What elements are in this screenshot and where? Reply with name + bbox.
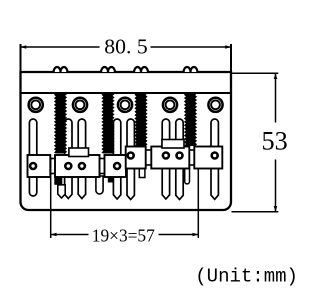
saddle block A (string 1 left) bbox=[28, 155, 51, 177]
saddle connector (raised, between blocks D-E) bbox=[144, 150, 154, 165]
dimension 53: bottom arrowhead bbox=[274, 206, 278, 212]
saddle connector (lower, between blocks B-C) bbox=[98, 159, 107, 174]
height adjustment screw 2 (shaft with tip) bbox=[65, 119, 72, 199]
height adjustment screw 3 (shaft with tip) bbox=[78, 119, 85, 199]
svg-text:80. 5: 80. 5 bbox=[104, 35, 147, 59]
string anchor humps (string 4) bbox=[184, 67, 198, 72]
saddle connector (raised, between blocks E-F) bbox=[187, 150, 196, 165]
mounting screw hole 5 bbox=[208, 98, 222, 112]
dimension 19x3=57: left arrowhead bbox=[51, 233, 57, 237]
dimension 80.5: dimension line right segment bbox=[151, 46, 232, 48]
dimension 80.5: right extension line bbox=[230, 44, 232, 72]
svg-text:53: 53 bbox=[262, 126, 288, 156]
string anchor humps (string 1) bbox=[54, 67, 68, 72]
string anchor humps (string 2) bbox=[101, 67, 115, 72]
height screw head 3 bbox=[78, 162, 87, 171]
dimension 80.5: left arrowhead bbox=[21, 45, 27, 49]
intonation screw with spring (string 2) bbox=[101, 93, 114, 154]
dimension 53: top arrowhead bbox=[274, 73, 278, 79]
dimension 19x3=57: dimension line right segment bbox=[159, 234, 199, 236]
plate bend line (back band bottom edge) bbox=[21, 92, 232, 94]
height screw head 8 bbox=[210, 151, 219, 160]
height adjustment screw 1 (shaft with tip) bbox=[29, 119, 36, 196]
dimension 19x3=57: right arrowhead bbox=[193, 233, 199, 237]
intonation screw tip leg (string 1) bbox=[58, 185, 65, 198]
saddle block B (strings 1-2 middle) bbox=[55, 155, 100, 177]
svg-text:19×3=57: 19×3=57 bbox=[92, 226, 155, 246]
svg-text:(Unit:mm): (Unit:mm) bbox=[195, 266, 298, 288]
height adjustment screw 8 (shaft with tip) bbox=[211, 119, 218, 199]
saddle block C (string 2 right) bbox=[105, 155, 127, 177]
mounting screw hole 3 bbox=[118, 98, 132, 112]
dimension 80.5: left extension line bbox=[20, 44, 22, 72]
height screw head 7 bbox=[175, 151, 184, 160]
saddle block E (strings 3-4 middle) bbox=[151, 147, 189, 169]
intonation screw with spring (string 1) bbox=[54, 93, 67, 154]
string guide stub under string 2 bbox=[96, 176, 103, 194]
height screw head 5 bbox=[126, 151, 135, 160]
intonation screw tip below saddle (string 1, black nub) bbox=[54, 177, 62, 185]
height adjustment screw 6 (shaft with tip) bbox=[162, 119, 169, 199]
mounting screw hole 1 bbox=[29, 98, 43, 112]
intonation screw tip below saddle (string 2, black nub) bbox=[108, 177, 114, 183]
saddle block D (string 3 left) bbox=[126, 147, 146, 169]
dimension 53: top extension line bbox=[231, 72, 278, 74]
mounting screw hole 2 bbox=[73, 98, 87, 112]
dimension 80.5: dimension line left segment bbox=[21, 46, 100, 48]
height adjustment screw 4 (shaft with tip) bbox=[113, 119, 120, 199]
bridge base plate outline bbox=[21, 72, 232, 210]
saddle connector (lower, between blocks A-B) bbox=[48, 159, 57, 174]
height screw head 6 bbox=[162, 151, 171, 160]
height screw head 2 bbox=[64, 162, 73, 171]
saddle bracket (raised, above block E) bbox=[162, 140, 184, 149]
dimension 19x3=57: right extension line bbox=[197, 169, 199, 238]
dimension 19x3=57: dimension line left segment bbox=[51, 234, 89, 236]
dimension 53: bottom extension line bbox=[232, 211, 279, 213]
intonation screw stub (string 4) bbox=[185, 167, 190, 184]
height adjustment screw 7 (shaft with tip) bbox=[176, 119, 183, 200]
mounting screw hole 4 bbox=[163, 98, 177, 112]
dimension 19x3=57: left extension line bbox=[50, 157, 52, 238]
dimension 53: dimension line upper segment bbox=[275, 73, 277, 122]
height screw head 1 bbox=[29, 162, 38, 171]
intonation screw with spring (string 4) bbox=[184, 93, 197, 146]
string anchor humps (string 3) bbox=[134, 67, 148, 72]
saddle block F (string 4 right) bbox=[194, 147, 222, 169]
dimension 53: dimension line lower segment bbox=[275, 160, 277, 212]
dimension 80.5: right arrowhead bbox=[225, 45, 231, 49]
height screw head 4 bbox=[113, 162, 122, 171]
height adjustment screw 5 (shaft with tip) bbox=[127, 119, 134, 200]
intonation screw with spring (string 3) bbox=[134, 93, 147, 146]
intonation screw stub (string 3) bbox=[139, 167, 145, 178]
saddle bracket (lower, above block B) bbox=[69, 148, 89, 157]
